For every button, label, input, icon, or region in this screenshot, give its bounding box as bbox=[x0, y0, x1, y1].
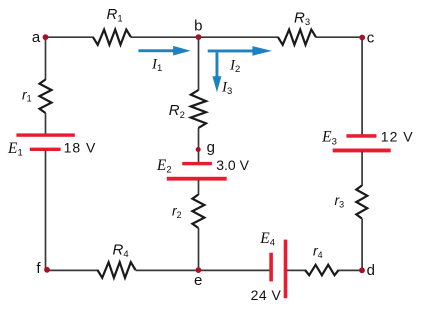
svg-text:r4: r4 bbox=[313, 243, 323, 260]
resistor r4 bbox=[305, 265, 339, 275]
resistor R2 bbox=[191, 90, 206, 128]
node a bbox=[43, 34, 49, 40]
wire left r1-E1 bbox=[45, 113, 47, 134]
svg-text:c: c bbox=[367, 29, 375, 46]
resistor R3 bbox=[278, 30, 316, 45]
svg-text:E1: E1 bbox=[7, 140, 23, 159]
wire middle r2-e bbox=[198, 228, 200, 270]
svg-text:18 V: 18 V bbox=[64, 140, 97, 156]
wire bottom R4-e bbox=[136, 269, 199, 271]
svg-text:R3: R3 bbox=[294, 9, 310, 28]
resistor r1 bbox=[40, 80, 52, 114]
svg-text:e: e bbox=[194, 272, 202, 289]
resistor R1 bbox=[93, 30, 131, 45]
wire bottom f-R4 bbox=[46, 269, 99, 271]
svg-text:r1: r1 bbox=[22, 86, 32, 103]
battery E4 short plate bbox=[269, 253, 273, 282]
svg-text:b: b bbox=[194, 18, 202, 35]
resistor R4 bbox=[98, 262, 136, 278]
current arrow I3 bbox=[212, 53, 221, 93]
svg-text:I2: I2 bbox=[229, 57, 240, 75]
svg-text:r2: r2 bbox=[172, 203, 182, 220]
battery E2 short plate bbox=[182, 162, 212, 165]
current arrow I1 bbox=[138, 46, 190, 56]
battery E4 long plate bbox=[284, 240, 288, 299]
battery E3 short plate bbox=[346, 134, 376, 138]
svg-text:R4: R4 bbox=[113, 242, 129, 261]
svg-text:E4: E4 bbox=[259, 230, 275, 249]
svg-text:r3: r3 bbox=[335, 192, 345, 209]
battery E2 long plate bbox=[167, 177, 227, 181]
battery E1 long plate bbox=[16, 133, 74, 136]
node f bbox=[44, 267, 50, 273]
wire right c-E3 bbox=[361, 37, 363, 135]
svg-text:g: g bbox=[207, 139, 215, 156]
resistor r3 bbox=[356, 186, 367, 219]
svg-text:d: d bbox=[367, 262, 375, 279]
wire bottom E4-r4 bbox=[287, 269, 306, 271]
svg-text:a: a bbox=[32, 29, 41, 46]
wire middle E2-r2 bbox=[198, 180, 200, 195]
wire top R1-b bbox=[131, 36, 199, 38]
wire left a-r1 bbox=[45, 37, 47, 80]
wire middle R2-g-E2 bbox=[198, 128, 200, 163]
svg-text:12 V: 12 V bbox=[381, 128, 414, 144]
svg-text:E2: E2 bbox=[156, 157, 172, 176]
battery E1 short plate bbox=[30, 148, 61, 151]
resistor r2 bbox=[192, 195, 204, 229]
wire left E1-f bbox=[45, 151, 47, 271]
svg-text:3.0 V: 3.0 V bbox=[216, 157, 249, 173]
wire right r3-d bbox=[361, 219, 363, 271]
node g bbox=[196, 147, 201, 152]
svg-text:R1: R1 bbox=[107, 6, 123, 25]
current arrow I2 bbox=[208, 46, 272, 56]
wire top b-R3 bbox=[199, 36, 279, 38]
wire bottom e-E4 bbox=[199, 269, 270, 271]
node c bbox=[359, 35, 365, 41]
svg-text:R2: R2 bbox=[169, 102, 185, 121]
node e bbox=[196, 267, 202, 273]
svg-text:24 V: 24 V bbox=[251, 287, 282, 303]
svg-text:f: f bbox=[36, 260, 41, 277]
wire middle b-R2 bbox=[198, 37, 200, 90]
node d bbox=[359, 267, 365, 273]
wire right E3-r3 bbox=[361, 152, 363, 187]
wire top a-R1 bbox=[46, 36, 94, 38]
svg-text:I3: I3 bbox=[221, 80, 232, 98]
svg-text:I1: I1 bbox=[151, 57, 162, 75]
wire top R3-c bbox=[316, 36, 362, 38]
svg-text:E3: E3 bbox=[321, 129, 337, 148]
wire bottom r4-d bbox=[339, 269, 363, 271]
node b bbox=[196, 34, 202, 40]
battery E3 long plate bbox=[333, 149, 391, 153]
